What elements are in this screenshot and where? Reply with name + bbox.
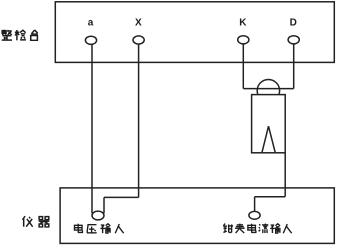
wire clamp output horizontal (255, 196, 286, 198)
instrument enclosure box (仪器) (60, 188, 334, 244)
clamp jaw circle (257, 80, 279, 102)
label 仪器 (instrument) (23, 216, 50, 227)
label 钳表电流输入 (clamp meter current input) (223, 224, 291, 234)
clamp trigger mark (262, 126, 275, 153)
wire K down (242, 44, 244, 89)
wire D down (293, 44, 295, 89)
svg-text:X: X (135, 17, 142, 28)
test bench enclosure box (整检台) (55, 2, 334, 63)
voltage input terminal (92, 211, 104, 220)
wire X to voltage input (103, 197, 105, 213)
svg-text:D: D (290, 17, 297, 28)
terminal X (133, 36, 144, 44)
wire X down (138, 44, 140, 197)
wire K to D (243, 88, 293, 90)
svg-text:a: a (88, 17, 94, 28)
current input terminal (249, 211, 260, 219)
label 电压输入 (voltage input) (74, 224, 123, 234)
label 整检台 (test bench) (1, 30, 37, 41)
svg-text:K: K (239, 17, 247, 28)
terminal D (288, 36, 299, 44)
clamp meter body (252, 95, 286, 153)
wire a to voltage input (91, 44, 93, 213)
wire X horizontal jog (104, 196, 139, 198)
terminal a (85, 36, 96, 44)
terminal K (238, 36, 249, 44)
wire clamp output down (284, 153, 286, 197)
wire clamp output to current input (254, 197, 256, 212)
